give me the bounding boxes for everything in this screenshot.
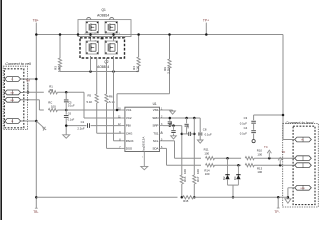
- svg-text:0.1uF: 0.1uF: [68, 117, 75, 121]
- svg-text:Q1: Q1: [102, 8, 106, 12]
- svg-text:TP-: TP-: [274, 210, 279, 214]
- svg-text:R16: R16: [183, 176, 187, 182]
- svg-text:C7: C7: [186, 124, 190, 128]
- svg-text:BM: BM: [11, 92, 14, 94]
- svg-text:U1: U1: [153, 102, 157, 106]
- svg-text:C1: C1: [81, 120, 85, 124]
- svg-text:R5: R5: [88, 94, 92, 98]
- svg-text:TD: TD: [281, 150, 285, 154]
- svg-text:5.1K: 5.1K: [135, 66, 139, 72]
- svg-text:AO8814: AO8814: [97, 65, 109, 69]
- svg-text:Connect to host: Connect to host: [286, 121, 315, 125]
- svg-text:SRP: SRP: [153, 124, 159, 128]
- svg-text:100: 100: [204, 151, 209, 155]
- svg-text:AO8814: AO8814: [97, 14, 109, 18]
- svg-text:2.2M: 2.2M: [166, 67, 170, 74]
- svg-text:100: 100: [183, 169, 187, 174]
- svg-text:0.1uF: 0.1uF: [240, 131, 247, 135]
- svg-text:C4: C4: [244, 126, 248, 130]
- svg-text:VC2: VC2: [126, 116, 132, 120]
- svg-text:D2: D2: [222, 176, 226, 180]
- svg-text:R15: R15: [183, 199, 189, 203]
- svg-text:GND: GND: [300, 188, 305, 190]
- svg-text:C6: C6: [68, 112, 72, 116]
- svg-text:5.1K: 5.1K: [87, 100, 93, 104]
- svg-text:PC: PC: [301, 140, 304, 142]
- svg-text:VC1: VC1: [126, 108, 132, 112]
- svg-text:2.2uF: 2.2uF: [77, 127, 84, 131]
- svg-text:0.1uF: 0.1uF: [205, 133, 212, 137]
- svg-text:10M: 10M: [57, 66, 61, 72]
- svg-text:TM: TM: [26, 79, 31, 83]
- svg-text:PACK: PACK: [126, 139, 134, 143]
- svg-text:TS1: TS1: [153, 131, 159, 135]
- svg-text:SRN: SRN: [152, 116, 158, 120]
- svg-text:VSS: VSS: [153, 108, 159, 112]
- svg-text:C3: C3: [244, 116, 248, 120]
- svg-text:bq29312A: bq29312A: [142, 136, 146, 151]
- svg-text:DSG: DSG: [126, 147, 133, 151]
- svg-text:B-: B-: [11, 121, 13, 123]
- svg-text:C2: C2: [169, 121, 173, 125]
- svg-text:CHG: CHG: [126, 131, 133, 135]
- svg-text:5.1K: 5.1K: [109, 100, 115, 104]
- svg-text:PBI: PBI: [126, 124, 131, 128]
- svg-text:0.1uF: 0.1uF: [240, 121, 247, 125]
- svg-text:TC: TC: [264, 145, 268, 149]
- svg-text:Connect to cell: Connect to cell: [5, 62, 31, 66]
- svg-text:SCL: SCL: [153, 139, 159, 143]
- svg-text:BM: BM: [11, 100, 14, 102]
- svg-text:0.1uF: 0.1uF: [68, 103, 75, 107]
- svg-text:D4: D4: [233, 176, 237, 180]
- svg-text:C8: C8: [203, 127, 207, 131]
- svg-text:100: 100: [51, 105, 56, 109]
- svg-text:R17: R17: [196, 176, 200, 182]
- svg-text:TP+: TP+: [203, 19, 209, 23]
- svg-text:SDA: SDA: [153, 147, 159, 151]
- svg-text:100: 100: [257, 170, 262, 174]
- svg-text:TB-: TB-: [33, 210, 38, 214]
- svg-text:100: 100: [205, 172, 210, 176]
- svg-text:100: 100: [257, 152, 262, 156]
- svg-text:100: 100: [196, 169, 200, 174]
- svg-text:R6: R6: [109, 95, 113, 99]
- svg-text:TB+: TB+: [33, 19, 39, 23]
- svg-text:5R: 5R: [50, 88, 54, 92]
